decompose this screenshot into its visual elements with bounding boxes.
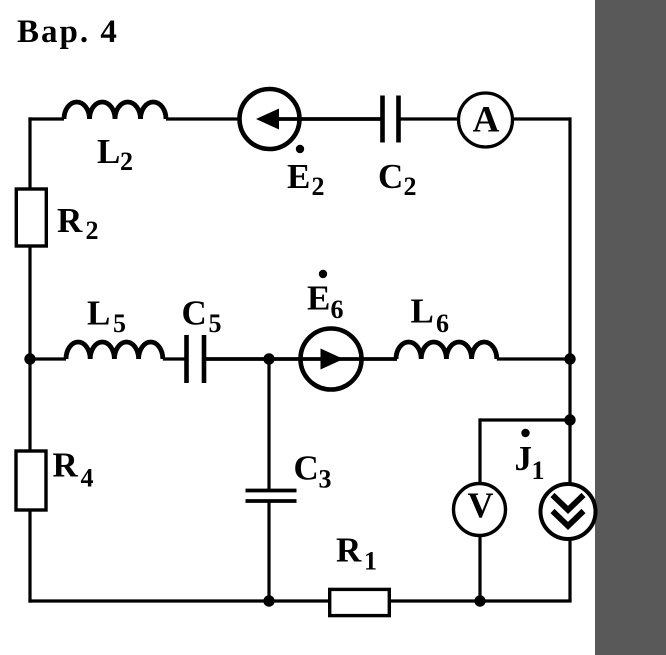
svg-text:C: C (294, 449, 319, 488)
inductor L2 (64, 102, 166, 119)
capacitor C5 plates (187, 335, 205, 383)
label R2 (57, 201, 99, 245)
inductor L6 (396, 342, 497, 359)
resistor R4 (16, 451, 46, 510)
svg-text:C: C (378, 157, 403, 196)
ammeter A (circle) (459, 93, 513, 147)
svg-text:E: E (287, 157, 310, 196)
label C5 (182, 294, 222, 339)
wire L6 to right rail (497, 357, 570, 360)
node at C3 bottom (263, 595, 274, 606)
wire right vertical (below J1) (568, 538, 571, 601)
wire V branch upper (478, 418, 481, 484)
label L5 (87, 294, 126, 339)
svg-text:1: 1 (364, 547, 377, 576)
wire left vertical bottom (28, 510, 31, 603)
svg-text:R: R (336, 531, 362, 570)
label R4 (53, 446, 94, 493)
current source J1 (circle) (541, 484, 596, 539)
label L2 (97, 132, 133, 176)
wire C5 through E6 (204, 357, 397, 361)
svg-text:5: 5 (209, 309, 222, 338)
wire L2 to E2 (166, 117, 241, 120)
svg-text:3: 3 (319, 465, 332, 494)
wire left vertical top (28, 117, 31, 189)
svg-text:4: 4 (81, 464, 94, 493)
svg-text:R: R (57, 201, 83, 240)
label C2 (378, 157, 417, 201)
wire C3 branch upper (267, 359, 270, 489)
label R1 (336, 531, 377, 576)
label E6 with dot (307, 270, 344, 324)
wire right vertical (top) (568, 117, 571, 484)
svg-text:L: L (87, 294, 110, 333)
wire V/J1 branch top horizontal (480, 418, 570, 421)
wire C2 to ammeter (399, 117, 460, 120)
node at V bottom (474, 595, 485, 606)
svg-text:2: 2 (120, 147, 133, 176)
wire C3 branch lower (267, 503, 270, 602)
wire middle rail left (30, 357, 66, 360)
label C3 (294, 449, 332, 494)
svg-text:Вар. 4: Вар. 4 (17, 14, 119, 50)
svg-text:6: 6 (436, 309, 449, 338)
wire left vertical middle (28, 246, 31, 451)
label L6 (411, 292, 450, 339)
J1 chevrons (double arrow down) (553, 495, 584, 526)
svg-text:V: V (468, 485, 494, 525)
node at right mid rail (564, 353, 575, 364)
capacitor C3 plates (246, 491, 297, 502)
svg-text:2: 2 (312, 172, 325, 201)
gray side band (595, 0, 666, 655)
resistor R1 (330, 589, 390, 615)
wire L5 to C5 (163, 357, 185, 360)
voltage source E2 (circle) (240, 89, 300, 149)
label J1 with dot (515, 429, 545, 485)
svg-text:A: A (473, 100, 500, 141)
node at C3 top (263, 353, 274, 364)
E2 arrow head (points left) (256, 109, 279, 130)
svg-text:1: 1 (532, 456, 545, 485)
svg-text:R: R (53, 446, 79, 485)
svg-text:6: 6 (331, 295, 344, 324)
inductor L5 (66, 342, 163, 359)
svg-text:2: 2 (404, 172, 417, 201)
wire ammeter to top-right corner (512, 117, 570, 120)
wire top-left horizontal (28, 117, 64, 120)
wire bottom rail right of R1 (391, 599, 572, 602)
svg-text:E: E (307, 279, 330, 318)
node at J1 branch top (564, 414, 575, 425)
voltmeter V (circle) (454, 484, 506, 536)
capacitor C2 plates (383, 96, 399, 143)
E6 arrow head (points right) (321, 349, 344, 370)
node at left mid rail (24, 353, 35, 364)
svg-text:2: 2 (86, 216, 99, 245)
svg-text:J: J (515, 439, 533, 478)
svg-text:L: L (411, 292, 434, 331)
resistor R2 (16, 189, 46, 246)
wire bottom rail left of R1 (28, 599, 328, 602)
wire V branch lower (478, 536, 481, 602)
voltage source E6 (circle) (301, 329, 362, 390)
label E2 with dot (287, 145, 325, 201)
E2 arrow tail wire (278, 117, 381, 121)
svg-text:5: 5 (113, 309, 126, 338)
svg-text:L: L (97, 132, 120, 171)
svg-text:C: C (182, 294, 207, 333)
